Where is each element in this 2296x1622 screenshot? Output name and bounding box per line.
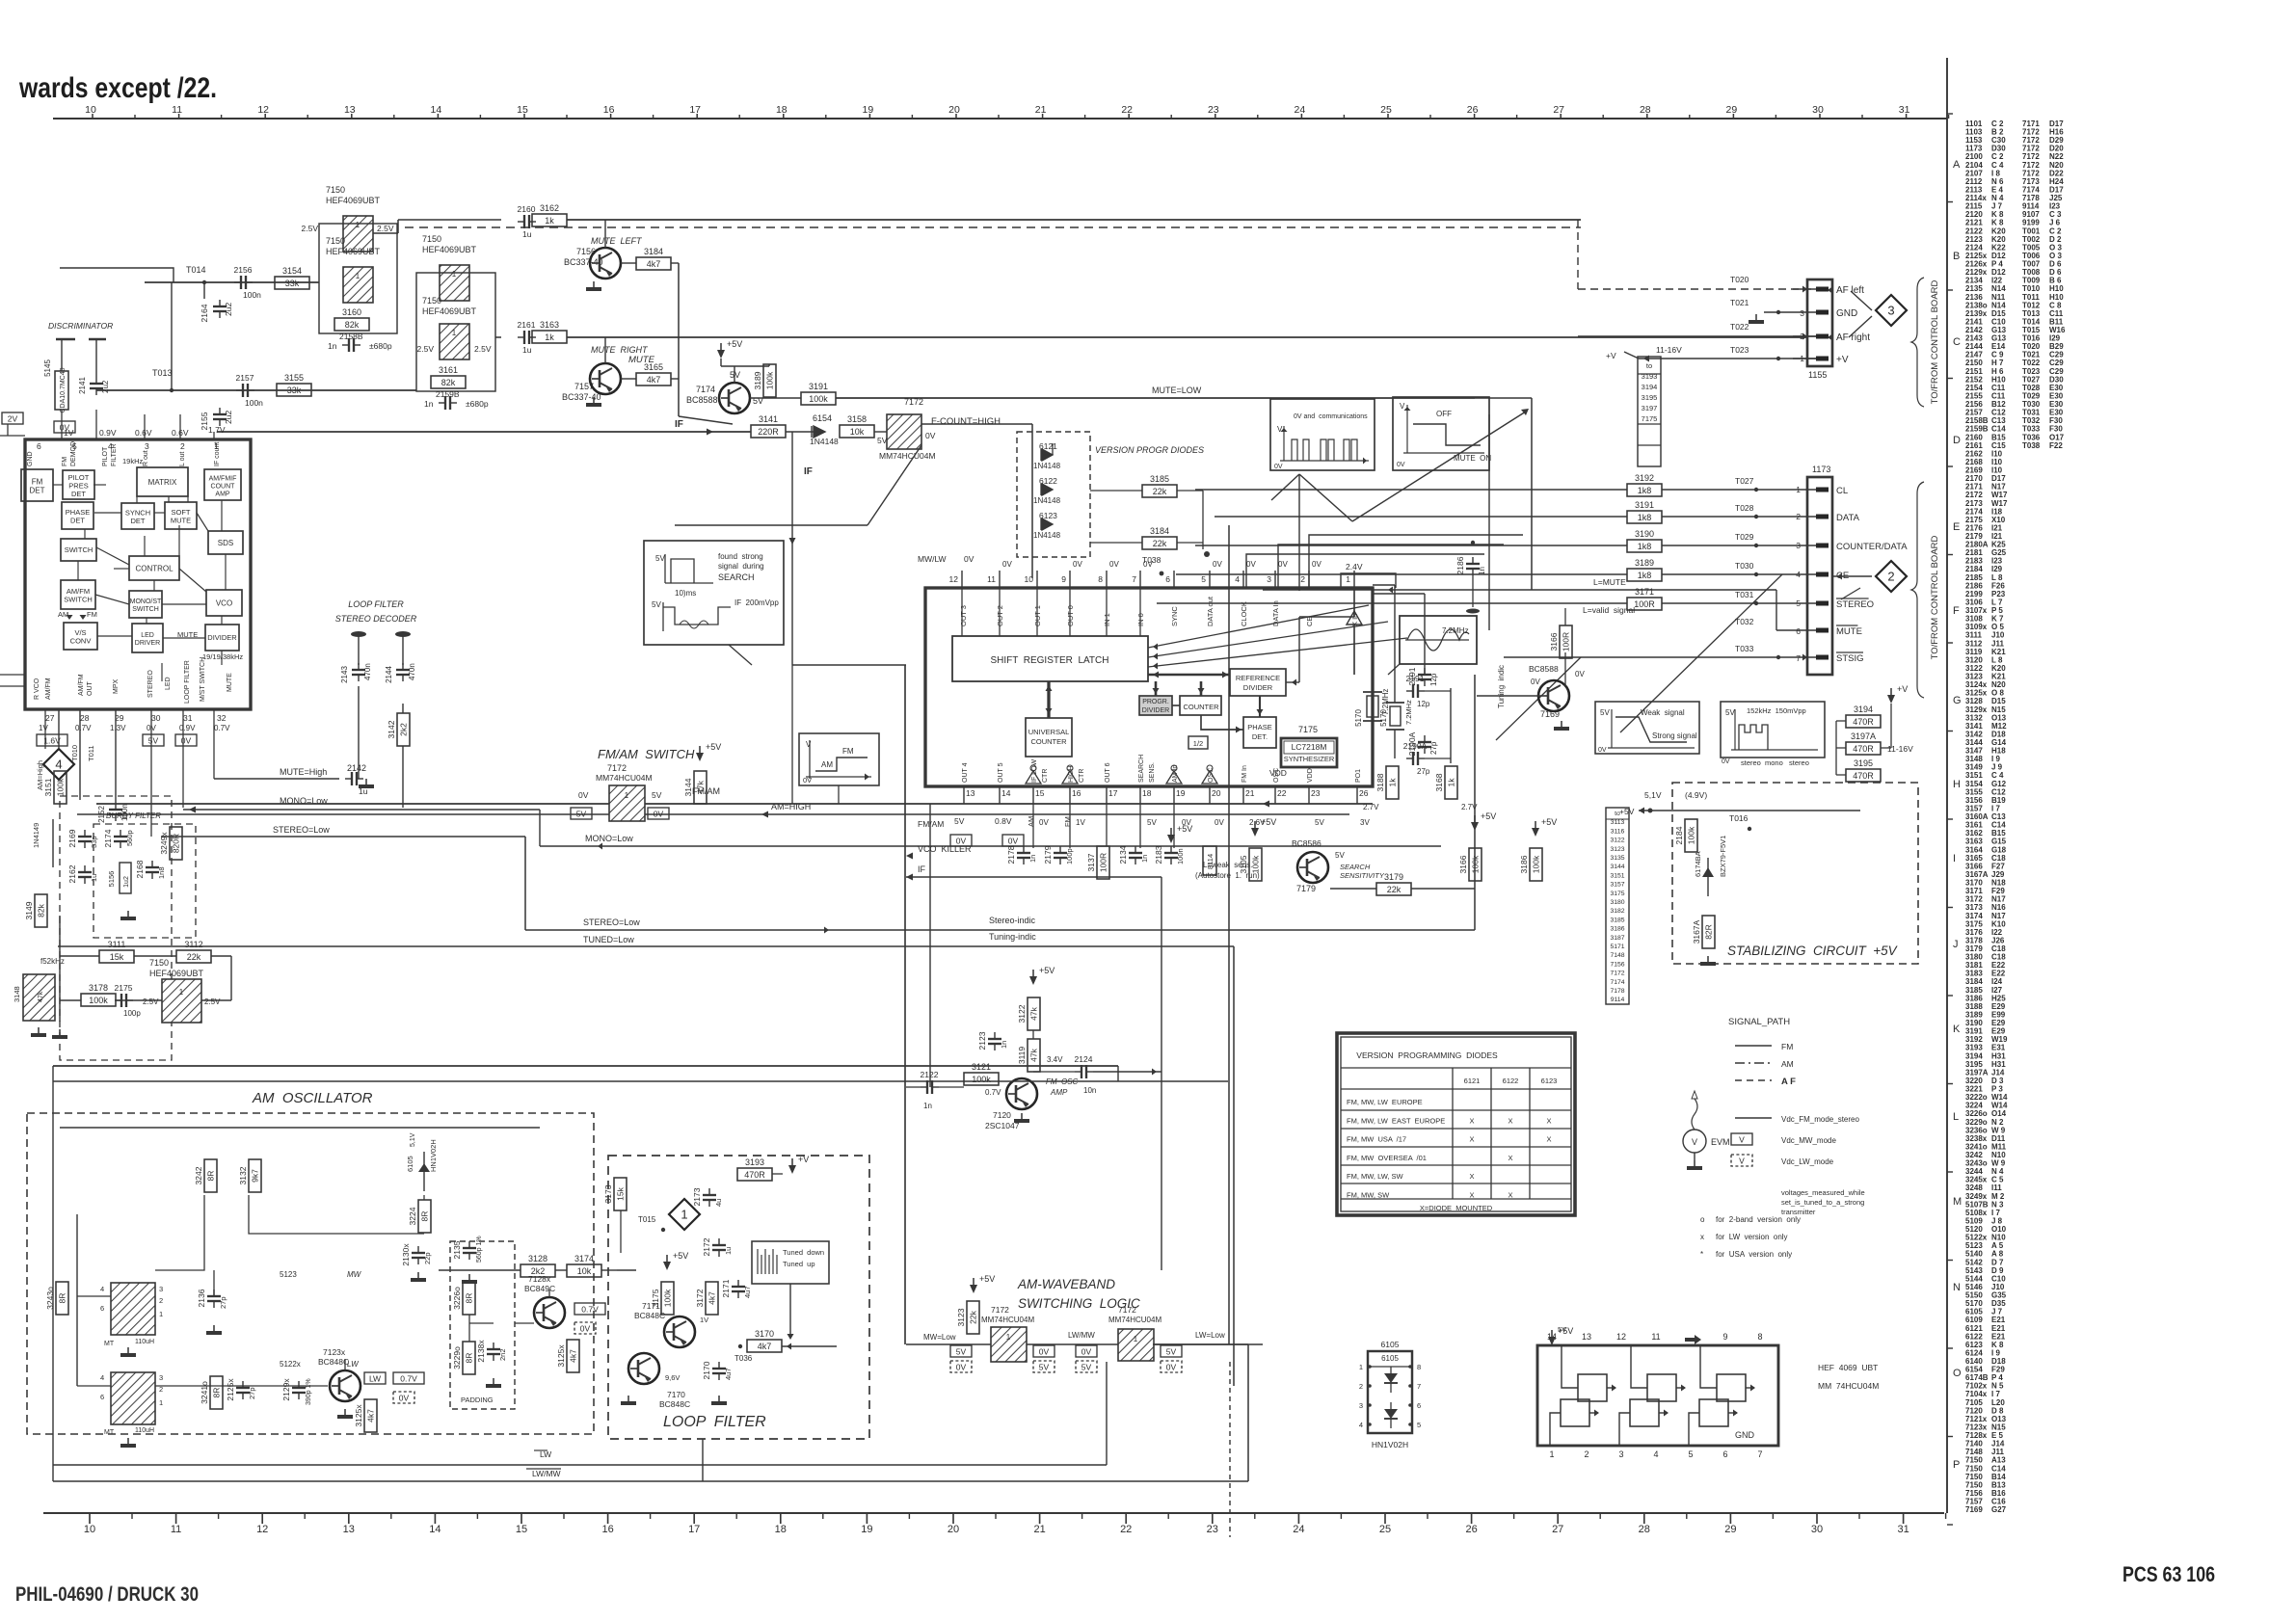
block MONO/ST SWITCH bbox=[129, 591, 162, 618]
svg-text:4u7: 4u7 bbox=[743, 1286, 752, 1298]
svg-text:0V: 0V bbox=[956, 1363, 967, 1372]
svg-text:3241o: 3241o bbox=[200, 1381, 209, 1404]
svg-text:3224: 3224 bbox=[408, 1207, 417, 1225]
svg-text:6121: 6121 bbox=[1464, 1077, 1481, 1085]
block SHIFT REGISTER LATCH bbox=[952, 636, 1148, 681]
capacitor 2124 bbox=[1081, 1065, 1082, 1078]
inverter U7150a label bbox=[326, 185, 381, 205]
svg-text:3121: 3121 bbox=[972, 1062, 991, 1072]
svg-text:1n: 1n bbox=[1028, 855, 1037, 863]
svg-text:3171: 3171 bbox=[1635, 587, 1654, 597]
capacitor 2125x bbox=[236, 1387, 250, 1389]
svg-text:1k8: 1k8 bbox=[1638, 542, 1652, 551]
svg-text:470R: 470R bbox=[1853, 744, 1874, 754]
svg-text:SYNTHESIZER: SYNTHESIZER bbox=[1284, 755, 1335, 763]
search info box bbox=[644, 541, 784, 645]
svg-text:CTR: CTR bbox=[1079, 769, 1085, 783]
svg-text:1V: 1V bbox=[700, 1316, 708, 1324]
svg-text:2171: 2171 bbox=[721, 1279, 731, 1297]
svg-text:2173: 2173 bbox=[692, 1187, 702, 1206]
svg-text:Tuning-indic: Tuning-indic bbox=[989, 932, 1036, 942]
svg-text:MM74HCU04M: MM74HCU04M bbox=[879, 451, 936, 461]
svg-text:1: 1 bbox=[681, 1208, 687, 1222]
right reference columns bbox=[1965, 120, 2066, 1514]
svg-text:OUT 6: OUT 6 bbox=[1105, 762, 1111, 783]
svg-text:5V: 5V bbox=[1081, 1363, 1092, 1372]
wire diag fcount bbox=[868, 445, 921, 525]
svg-text:DIVIDER: DIVIDER bbox=[207, 633, 237, 642]
svg-text:7128x: 7128x bbox=[528, 1274, 551, 1284]
svg-text:LOOP FILTER: LOOP FILTER bbox=[663, 1414, 766, 1430]
svg-text:T023: T023 bbox=[1730, 345, 1749, 355]
svg-text:to: to bbox=[1646, 361, 1652, 370]
capacitor 2191 bbox=[1418, 674, 1431, 676]
hatched filter 3148 bbox=[23, 974, 55, 1021]
svg-text:4: 4 bbox=[100, 1285, 104, 1293]
svg-text:SWITCH: SWITCH bbox=[65, 545, 93, 554]
svg-text:8: 8 bbox=[1417, 1363, 1421, 1371]
svg-text:IF: IF bbox=[918, 864, 926, 874]
svg-text:7150: 7150 bbox=[422, 296, 441, 306]
svg-text:0.6V: 0.6V bbox=[135, 428, 152, 438]
svg-text:22k: 22k bbox=[1153, 487, 1167, 496]
svg-text:16: 16 bbox=[601, 1524, 613, 1535]
svg-text:3193: 3193 bbox=[745, 1157, 764, 1167]
wire 3162 to right bbox=[567, 219, 1581, 221]
wire vert 822 bbox=[791, 540, 793, 665]
svg-text:100k: 100k bbox=[56, 778, 66, 796]
svg-text:3119: 3119 bbox=[1017, 1047, 1027, 1065]
svg-text:5V: 5V bbox=[1335, 851, 1345, 860]
capacitor 2155 bbox=[200, 408, 233, 430]
wire AF-left dashes bbox=[1577, 220, 1579, 289]
svg-text:220R: 220R bbox=[758, 427, 779, 437]
svg-text:470n: 470n bbox=[408, 663, 416, 680]
svg-text:2.5V: 2.5V bbox=[417, 344, 435, 354]
wire synth-pins down bbox=[963, 804, 965, 838]
svg-text:100k: 100k bbox=[663, 1289, 673, 1307]
svg-text:2175: 2175 bbox=[115, 983, 133, 993]
svg-text:2124: 2124 bbox=[1075, 1054, 1093, 1064]
svg-text:6105: 6105 bbox=[1381, 1340, 1400, 1349]
svg-text:4: 4 bbox=[1796, 570, 1801, 579]
svg-text:BC848C: BC848C bbox=[634, 1311, 665, 1320]
capacitor 2135 bbox=[463, 1247, 476, 1249]
wire lw row bbox=[155, 1385, 328, 1387]
capacitor 2171 bbox=[732, 1286, 745, 1288]
svg-text:GND: GND bbox=[1735, 1430, 1755, 1440]
svg-text:LED: LED bbox=[165, 677, 172, 690]
svg-text:5V: 5V bbox=[954, 816, 965, 826]
svg-text:14: 14 bbox=[431, 104, 442, 116]
svg-text:10)ms: 10)ms bbox=[675, 589, 696, 598]
svg-text:27p: 27p bbox=[1429, 741, 1438, 755]
svg-text:12: 12 bbox=[1616, 1332, 1626, 1342]
svg-text:15: 15 bbox=[517, 104, 528, 116]
capacitor 2156 bbox=[240, 276, 242, 289]
svg-text:0V: 0V bbox=[1213, 560, 1222, 569]
svg-text:16: 16 bbox=[603, 104, 615, 116]
svg-text:FM In: FM In bbox=[1241, 765, 1248, 783]
svg-text:7150: 7150 bbox=[326, 185, 345, 195]
svg-text:5V: 5V bbox=[1600, 708, 1610, 717]
svg-text:HEF4069UBT: HEF4069UBT bbox=[149, 969, 204, 978]
coil 5156 bbox=[107, 863, 131, 893]
node T013 bbox=[152, 368, 174, 392]
svg-text:100k: 100k bbox=[1687, 826, 1696, 844]
svg-text:MUTE=LOW: MUTE=LOW bbox=[1152, 386, 1202, 395]
svg-text:5V: 5V bbox=[1039, 1363, 1050, 1372]
svg-text:0.7V: 0.7V bbox=[75, 724, 92, 732]
wire diamond3 bbox=[1851, 291, 1872, 310]
svg-text:20: 20 bbox=[948, 104, 960, 116]
svg-text:3179: 3179 bbox=[1384, 872, 1403, 882]
wire clock data lines bbox=[1246, 554, 1484, 588]
svg-text:2161: 2161 bbox=[518, 320, 536, 330]
wire hor 1520 bbox=[53, 1464, 1107, 1466]
svg-text:4k7: 4k7 bbox=[647, 259, 661, 269]
svg-text:3180: 3180 bbox=[1610, 899, 1624, 906]
svg-text:3185: 3185 bbox=[1150, 474, 1169, 484]
svg-text:VERSION PROGR DIODES: VERSION PROGR DIODES bbox=[1095, 445, 1204, 455]
wire vert 1275 bbox=[1228, 525, 1230, 1344]
block LC7218M SYNTHESIZER bbox=[1281, 738, 1337, 767]
svg-text:28: 28 bbox=[1640, 104, 1651, 116]
svg-text:BC337-40: BC337-40 bbox=[564, 257, 603, 267]
svg-text:0.7V: 0.7V bbox=[581, 1305, 599, 1315]
svg-text:27: 27 bbox=[45, 713, 55, 723]
diode 6154 1N4148 bbox=[810, 413, 839, 446]
svg-text:MW=Low: MW=Low bbox=[923, 1333, 956, 1342]
svg-text:N: N bbox=[1953, 1282, 1961, 1293]
wire row2 bbox=[96, 389, 416, 391]
capacitor 2159B bbox=[424, 389, 489, 410]
capacitor 2136 bbox=[207, 1295, 221, 1297]
svg-text:5V: 5V bbox=[576, 810, 587, 819]
wire Lvalid bbox=[1564, 608, 1566, 625]
block 1/2 bbox=[1188, 736, 1208, 749]
svg-text:5V: 5V bbox=[1166, 1347, 1177, 1357]
svg-text:HEF4069UBT: HEF4069UBT bbox=[422, 245, 477, 254]
svg-text:470R: 470R bbox=[1853, 717, 1874, 727]
svg-text:5,1V: 5,1V bbox=[1644, 790, 1662, 800]
svg-text:0V: 0V bbox=[1274, 464, 1283, 470]
block AM/FM IF COUNT AMP bbox=[204, 469, 241, 500]
resistors 1k8 row bbox=[1627, 473, 1816, 610]
svg-text:12: 12 bbox=[256, 1524, 268, 1535]
svg-text:AF left: AF left bbox=[1836, 285, 1864, 296]
capacitor 2170 bbox=[712, 1368, 726, 1369]
svg-text:12p: 12p bbox=[1417, 700, 1430, 708]
svg-text:DRIVER: DRIVER bbox=[135, 640, 160, 647]
arrow refdiv-phase bbox=[1259, 696, 1261, 717]
svg-text:10k: 10k bbox=[850, 427, 865, 437]
svg-text:COUNTER: COUNTER bbox=[1183, 703, 1219, 711]
svg-text:1n: 1n bbox=[1140, 855, 1149, 863]
svg-text:3135: 3135 bbox=[1610, 855, 1624, 862]
svg-text:LOOP FILTER: LOOP FILTER bbox=[184, 660, 191, 704]
svg-text:0.7V: 0.7V bbox=[985, 1088, 1001, 1097]
svg-text:17: 17 bbox=[688, 1524, 700, 1535]
svg-text:3226o: 3226o bbox=[452, 1287, 462, 1310]
svg-text:1n: 1n bbox=[424, 399, 434, 409]
svg-text:5,1V: 5,1V bbox=[410, 1132, 416, 1147]
svg-text:2: 2 bbox=[1887, 570, 1894, 584]
svg-text:PO1: PO1 bbox=[1355, 769, 1362, 783]
wire mute low right bbox=[1488, 414, 1490, 630]
wire mute=low bbox=[750, 397, 801, 399]
pin numbers bottom bbox=[45, 713, 227, 723]
birdy filter inner dashed bbox=[93, 824, 196, 938]
svg-text:15k: 15k bbox=[616, 1186, 626, 1200]
svg-text:0V: 0V bbox=[1002, 560, 1012, 569]
svg-text:T036: T036 bbox=[734, 1354, 753, 1363]
svg-text:13: 13 bbox=[1582, 1332, 1591, 1342]
svg-text:2k2: 2k2 bbox=[399, 723, 409, 736]
EVM meter symbol bbox=[1683, 1091, 1730, 1170]
transistor 7171 BC848C bbox=[634, 1301, 708, 1347]
svg-text:2129x: 2129x bbox=[281, 1378, 291, 1401]
svg-text:Vdc_MW_mode: Vdc_MW_mode bbox=[1781, 1136, 1836, 1145]
wire t014 vert bbox=[203, 282, 205, 299]
svg-text:3: 3 bbox=[159, 1285, 163, 1293]
capacitor 2143 bbox=[340, 631, 372, 683]
svg-text:STEREO=Low: STEREO=Low bbox=[583, 917, 640, 927]
connector 1173 bbox=[1796, 465, 1908, 675]
svg-text:FILTER: FILTER bbox=[111, 443, 118, 466]
svg-text:FM, MW, LW, SW: FM, MW, LW, SW bbox=[1347, 1172, 1404, 1181]
svg-text:MM 74HCU04M: MM 74HCU04M bbox=[1818, 1381, 1879, 1391]
weak-strong box bbox=[1595, 702, 1699, 754]
svg-text:L out: L out bbox=[179, 452, 186, 466]
svg-text:1k: 1k bbox=[545, 332, 554, 342]
svg-text:T038: T038 bbox=[2022, 441, 2041, 450]
svg-text:100R: 100R bbox=[1562, 632, 1571, 651]
svg-text:X: X bbox=[1469, 1172, 1474, 1181]
svg-text:22: 22 bbox=[1120, 1524, 1132, 1535]
svg-text:22: 22 bbox=[1121, 104, 1133, 116]
ground 7157 bbox=[593, 397, 595, 403]
svg-text:T022: T022 bbox=[1730, 322, 1749, 332]
svg-text:11-16V: 11-16V bbox=[1656, 345, 1682, 355]
block SDS bbox=[208, 531, 243, 554]
svg-text:3112: 3112 bbox=[184, 940, 202, 949]
svg-text:26: 26 bbox=[1465, 1524, 1477, 1535]
diode package 6105 bbox=[1359, 1340, 1421, 1449]
svg-text:T016: T016 bbox=[1729, 813, 1749, 823]
svg-text:470R: 470R bbox=[1853, 771, 1874, 781]
svg-text:IF: IF bbox=[675, 419, 683, 430]
svg-text:47k: 47k bbox=[1029, 1048, 1039, 1061]
svg-text:0.9V: 0.9V bbox=[179, 724, 196, 732]
capacitor 2172 bbox=[712, 1244, 726, 1246]
svg-text:100R: 100R bbox=[1099, 853, 1108, 872]
block SYNCH DET bbox=[121, 503, 154, 529]
wire 7156 base bbox=[604, 220, 606, 248]
svg-text:L: L bbox=[1953, 1111, 1959, 1123]
svg-text:9: 9 bbox=[1061, 574, 1066, 584]
svg-text:3172: 3172 bbox=[695, 1289, 705, 1307]
svg-text:DET: DET bbox=[30, 486, 45, 494]
svg-text:30: 30 bbox=[151, 713, 161, 723]
pins top synth bbox=[949, 560, 1396, 588]
capacitor 2129x bbox=[292, 1387, 306, 1389]
svg-text:SYNC: SYNC bbox=[1170, 606, 1179, 626]
svg-text:100p: 100p bbox=[123, 1009, 141, 1018]
diamond node 4 bbox=[43, 749, 74, 780]
svg-text:to: to bbox=[1615, 811, 1620, 817]
arrow counter-phase bbox=[1201, 715, 1243, 730]
block PHASE DET bbox=[62, 502, 93, 529]
svg-text:T027: T027 bbox=[1735, 476, 1754, 486]
wire crystal bbox=[1373, 593, 1425, 595]
svg-text:0V: 0V bbox=[925, 431, 936, 440]
svg-text:27p: 27p bbox=[248, 1387, 256, 1399]
svg-text:2123: 2123 bbox=[977, 1031, 987, 1050]
svg-text:3195: 3195 bbox=[1642, 393, 1658, 402]
svg-text:V: V bbox=[1400, 402, 1405, 411]
transistor 7120 2SC1047 bbox=[985, 1077, 1079, 1130]
svg-text:2162: 2162 bbox=[67, 864, 77, 883]
svg-text:26: 26 bbox=[1467, 104, 1479, 116]
svg-text:Stereo-indic: Stereo-indic bbox=[989, 916, 1036, 925]
svg-text:3167A: 3167A bbox=[1692, 919, 1701, 944]
svg-text:T011: T011 bbox=[87, 745, 95, 761]
svg-text:0V: 0V bbox=[1531, 678, 1540, 686]
svg-text:2144: 2144 bbox=[385, 666, 393, 683]
capacitor 2144 bbox=[385, 631, 416, 683]
svg-text:23: 23 bbox=[1208, 104, 1219, 116]
svg-text:T014: T014 bbox=[186, 265, 206, 275]
wire mw lw cols bbox=[213, 1270, 215, 1296]
birdy filter outer dashed bbox=[60, 796, 172, 1060]
pin numbers top bbox=[37, 441, 219, 451]
inverter 7172 fmam bbox=[609, 785, 645, 821]
svg-text:P: P bbox=[1953, 1459, 1960, 1471]
svg-text:2: 2 bbox=[1796, 512, 1801, 521]
svg-text:5156: 5156 bbox=[107, 871, 116, 888]
capacitor 2130x bbox=[412, 1252, 425, 1254]
svg-text:7150: 7150 bbox=[422, 234, 441, 244]
svg-text:2.5V: 2.5V bbox=[302, 224, 319, 233]
svg-text:8R: 8R bbox=[465, 1353, 474, 1364]
svg-text:3189: 3189 bbox=[1635, 558, 1654, 568]
svg-text:2u2: 2u2 bbox=[224, 303, 233, 316]
loop filter dashed box bbox=[608, 1156, 869, 1439]
svg-text:D: D bbox=[1953, 435, 1961, 446]
svg-text:3174: 3174 bbox=[574, 1254, 594, 1263]
svg-text:OUT: OUT bbox=[87, 681, 93, 697]
svg-text:5: 5 bbox=[1201, 574, 1206, 584]
svg-text:2183: 2183 bbox=[1154, 845, 1163, 864]
wire 7128 col bbox=[548, 1290, 550, 1297]
svg-text:+V: +V bbox=[1897, 684, 1908, 694]
svg-text:10n: 10n bbox=[1083, 1086, 1096, 1095]
svg-text:2: 2 bbox=[159, 1296, 163, 1305]
inverter U7150c bbox=[440, 265, 469, 301]
wire vert 939 bbox=[904, 665, 906, 1344]
svg-text:2: 2 bbox=[1584, 1449, 1589, 1459]
svg-text:PHIL-04690 / DRUCK 30: PHIL-04690 / DRUCK 30 bbox=[15, 1583, 199, 1606]
svg-text:HEF 4069 UBT: HEF 4069 UBT bbox=[1818, 1363, 1878, 1372]
svg-text:7148: 7148 bbox=[1610, 952, 1624, 959]
svg-text:10: 10 bbox=[85, 104, 96, 116]
svg-text:G27: G27 bbox=[1991, 1505, 2007, 1514]
svg-text:5V: 5V bbox=[1315, 818, 1324, 827]
capacitor 2160 bbox=[523, 215, 525, 228]
svg-text:1: 1 bbox=[1796, 485, 1801, 494]
svg-text:7156: 7156 bbox=[1610, 961, 1624, 968]
svg-text:5V: 5V bbox=[1725, 708, 1735, 717]
svg-text:2143: 2143 bbox=[340, 666, 349, 683]
svg-text:L=MUTE: L=MUTE bbox=[1593, 577, 1626, 587]
svg-text:2138x: 2138x bbox=[476, 1340, 486, 1363]
svg-text:MUTE: MUTE bbox=[1836, 626, 1862, 637]
svg-text:2157: 2157 bbox=[236, 373, 254, 383]
version programming diodes table bbox=[1337, 1033, 1575, 1215]
svg-text:5122x: 5122x bbox=[280, 1360, 301, 1369]
svg-text:1N4148: 1N4148 bbox=[1033, 462, 1061, 470]
capacitor 2183 bbox=[1164, 852, 1178, 854]
ground 3148 bbox=[38, 1027, 40, 1033]
svg-text:4: 4 bbox=[100, 1373, 104, 1382]
svg-text:100k: 100k bbox=[765, 371, 775, 389]
svg-text:3161: 3161 bbox=[439, 365, 458, 375]
svg-text:4u: 4u bbox=[714, 1199, 723, 1207]
svg-text:DET.: DET. bbox=[1252, 732, 1268, 741]
svg-text:wards except /22.: wards except /22. bbox=[18, 72, 217, 104]
svg-text:7169: 7169 bbox=[1965, 1505, 1983, 1514]
svg-text:AM/FMIF: AM/FMIF bbox=[209, 475, 237, 482]
svg-text:PROGR.: PROGR. bbox=[1142, 699, 1169, 705]
svg-text:LED: LED bbox=[141, 632, 154, 639]
svg-text:3185: 3185 bbox=[1610, 917, 1624, 923]
block MATRIX bbox=[137, 467, 188, 496]
block REFERENCE DIVIDER bbox=[1230, 669, 1286, 696]
wire vert 1140 bbox=[1101, 946, 1103, 1012]
svg-text:1V: 1V bbox=[1076, 818, 1085, 827]
capacitor 2158B bbox=[328, 332, 392, 352]
svg-text:110uH: 110uH bbox=[135, 1339, 154, 1345]
svg-text:SWITCH: SWITCH bbox=[64, 595, 93, 603]
wire dashed af mid bbox=[524, 808, 526, 814]
svg-text:5V: 5V bbox=[956, 1347, 967, 1357]
wire diodes-3185 bbox=[1052, 443, 1054, 455]
IC LC7218 outline bbox=[925, 588, 1373, 786]
svg-text:0V: 0V bbox=[1166, 1363, 1177, 1372]
svg-text:F-COUNT=HIGH: F-COUNT=HIGH bbox=[931, 416, 1001, 427]
svg-text:2172: 2172 bbox=[702, 1237, 711, 1256]
wire mute=low up bbox=[1475, 397, 1532, 399]
svg-text:BC8588: BC8588 bbox=[686, 395, 718, 405]
svg-text:2168: 2168 bbox=[135, 860, 145, 878]
svg-text:2.5V: 2.5V bbox=[474, 344, 492, 354]
svg-text:5145: 5145 bbox=[43, 359, 52, 377]
svg-text:0V and communications: 0V and communications bbox=[1294, 413, 1368, 420]
wire 3111-3112 row bbox=[60, 955, 99, 957]
svg-text:1N4148: 1N4148 bbox=[810, 437, 839, 446]
block LED DRIVER bbox=[132, 624, 163, 652]
svg-text:0V: 0V bbox=[1312, 560, 1322, 569]
svg-text:COUNTER/DATA: COUNTER/DATA bbox=[1836, 542, 1908, 552]
svg-text:9: 9 bbox=[1722, 1332, 1727, 1342]
svg-text:7175: 7175 bbox=[1642, 414, 1658, 423]
svg-text:8R: 8R bbox=[212, 1388, 222, 1398]
to/from control board label (mid) bbox=[1911, 482, 1940, 698]
svg-text:17: 17 bbox=[689, 104, 701, 116]
wire 7150 row bbox=[60, 999, 81, 1001]
svg-text:FM, MW USA /17: FM, MW USA /17 bbox=[1347, 1135, 1406, 1144]
